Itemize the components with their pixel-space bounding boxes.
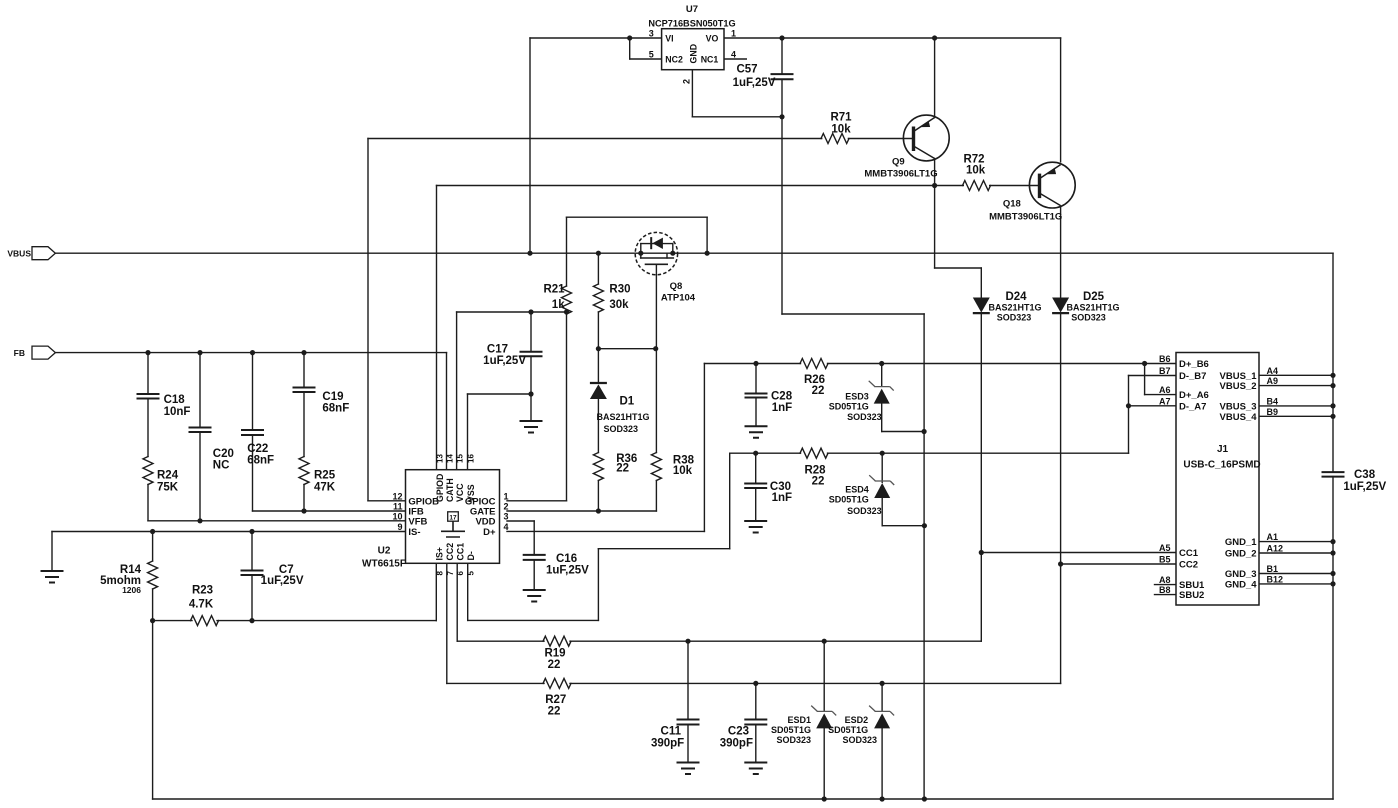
svg-text:C30: C30 [770,481,791,493]
svg-text:C57: C57 [736,64,757,76]
svg-text:390pF: 390pF [720,738,753,750]
svg-text:VBUS_4: VBUS_4 [1220,412,1258,423]
svg-text:CC2: CC2 [1179,560,1198,571]
svg-text:D-_A7: D-_A7 [1179,401,1206,412]
svg-text:1uF,25V: 1uF,25V [261,575,304,587]
svg-text:9: 9 [397,522,402,532]
svg-text:VBUS_2: VBUS_2 [1220,381,1257,392]
svg-text:VCC: VCC [455,483,465,502]
svg-text:D-: D- [466,551,476,560]
svg-text:VBUS: VBUS [7,249,31,259]
svg-text:16: 16 [467,454,476,463]
svg-text:22: 22 [548,706,561,718]
svg-text:11: 11 [393,502,403,512]
svg-text:1uF,25V: 1uF,25V [733,77,776,89]
svg-text:A4: A4 [1267,366,1279,376]
svg-text:C23: C23 [728,726,749,738]
svg-text:22: 22 [812,385,825,397]
svg-text:1uF,25V: 1uF,25V [1343,481,1386,493]
svg-text:R27: R27 [545,694,566,706]
svg-text:30k: 30k [609,299,629,311]
svg-text:C11: C11 [661,726,682,738]
svg-text:R21: R21 [543,284,565,296]
svg-text:CC2: CC2 [445,543,455,561]
svg-text:22: 22 [548,659,561,671]
svg-text:CC1: CC1 [456,543,466,561]
svg-text:SOD323: SOD323 [842,735,877,745]
svg-text:D1: D1 [620,396,635,408]
svg-text:12: 12 [392,491,402,501]
svg-text:D-_B7: D-_B7 [1179,371,1206,382]
svg-text:R30: R30 [609,284,630,296]
svg-text:MMBT3906LT1G: MMBT3906LT1G [864,169,937,180]
svg-text:2: 2 [682,79,692,84]
svg-text:1k: 1k [552,299,565,311]
svg-text:SOD323: SOD323 [776,735,811,745]
svg-text:VI: VI [665,34,673,44]
svg-text:USB-C_16PSMD: USB-C_16PSMD [1183,460,1260,471]
svg-text:U7: U7 [686,4,698,15]
svg-text:SD05T1G: SD05T1G [829,402,869,412]
svg-text:WT6615F: WT6615F [362,559,406,570]
svg-text:U2: U2 [378,546,391,557]
svg-text:B1: B1 [1267,564,1279,574]
svg-text:J1: J1 [1217,444,1229,455]
svg-text:68nF: 68nF [322,403,349,415]
svg-text:B5: B5 [1159,555,1171,565]
svg-text:D25: D25 [1083,291,1105,303]
svg-text:C20: C20 [213,448,234,460]
svg-text:B12: B12 [1267,574,1284,584]
svg-text:C17: C17 [487,344,508,356]
svg-text:SOD323: SOD323 [604,424,639,434]
svg-text:ESD1: ESD1 [787,715,811,725]
svg-text:BAS21HT1G: BAS21HT1G [1066,303,1119,313]
svg-text:22: 22 [812,475,825,487]
svg-text:GND_1: GND_1 [1225,537,1257,548]
svg-text:5: 5 [649,50,654,60]
svg-text:B6: B6 [1159,354,1171,364]
svg-text:GND: GND [689,44,699,64]
svg-text:75K: 75K [157,481,179,493]
svg-text:IS+: IS+ [435,547,445,560]
svg-text:C28: C28 [771,391,793,403]
svg-text:A9: A9 [1267,376,1279,386]
svg-text:B7: B7 [1159,366,1171,376]
svg-text:ATP104: ATP104 [661,293,696,304]
svg-text:10k: 10k [831,124,851,136]
svg-text:VO: VO [706,34,719,44]
svg-text:B9: B9 [1267,407,1279,417]
svg-text:CATH: CATH [445,478,455,502]
svg-text:SBU2: SBU2 [1179,590,1204,601]
svg-text:BAS21HT1G: BAS21HT1G [988,303,1041,313]
svg-text:10nF: 10nF [164,406,191,418]
svg-text:ESD2: ESD2 [845,715,869,725]
svg-text:10k: 10k [673,465,693,477]
svg-text:4.7K: 4.7K [189,598,214,610]
svg-text:B8: B8 [1159,585,1171,595]
svg-text:B4: B4 [1267,396,1279,406]
svg-text:A7: A7 [1159,396,1171,406]
svg-text:NC: NC [213,460,230,472]
svg-text:1nF: 1nF [772,492,792,504]
svg-text:R25: R25 [314,470,336,482]
svg-text:1uF,25V: 1uF,25V [546,565,589,577]
svg-text:3: 3 [649,29,654,39]
svg-text:17: 17 [449,515,457,522]
svg-text:CC1: CC1 [1179,548,1199,559]
svg-text:SOD323: SOD323 [997,313,1032,323]
svg-text:10: 10 [392,512,402,522]
svg-text:10k: 10k [966,165,986,177]
svg-text:13: 13 [436,454,445,463]
svg-text:D+_B6: D+_B6 [1179,359,1209,370]
svg-text:VFB: VFB [408,517,427,528]
svg-text:VBUS_3: VBUS_3 [1220,401,1257,412]
svg-text:1: 1 [504,491,509,501]
svg-text:Q8: Q8 [670,281,683,292]
svg-text:2: 2 [504,502,509,512]
svg-text:D+: D+ [483,527,496,538]
svg-text:GND_4: GND_4 [1225,579,1257,590]
svg-text:VDD: VDD [475,517,495,528]
svg-text:A6: A6 [1159,385,1171,395]
svg-text:SD05T1G: SD05T1G [771,725,811,735]
svg-text:14: 14 [446,454,455,463]
svg-text:R71: R71 [830,112,852,124]
svg-text:R19: R19 [544,648,565,660]
svg-text:NCP716BSN050T1G: NCP716BSN050T1G [648,19,735,29]
svg-text:GND_3: GND_3 [1225,569,1257,580]
svg-text:7: 7 [446,571,455,576]
svg-text:C22: C22 [247,443,268,455]
svg-text:68nF: 68nF [247,455,274,467]
svg-text:1uF,25V: 1uF,25V [483,355,526,367]
svg-text:R23: R23 [192,585,213,597]
svg-text:MMBT3906LT1G: MMBT3906LT1G [989,211,1062,222]
svg-text:VSS: VSS [466,484,476,502]
svg-text:A12: A12 [1267,544,1284,554]
svg-text:22: 22 [616,463,629,475]
svg-text:3: 3 [504,512,509,522]
svg-text:SOD323: SOD323 [847,412,882,422]
svg-text:390pF: 390pF [651,738,684,750]
svg-text:15: 15 [456,454,465,463]
svg-text:4: 4 [504,522,509,532]
svg-text:1nF: 1nF [772,402,792,414]
svg-text:ESD4: ESD4 [845,485,869,495]
svg-text:C16: C16 [556,553,577,565]
svg-text:NC2: NC2 [665,55,683,65]
svg-text:SD05T1G: SD05T1G [829,495,869,505]
svg-text:A8: A8 [1159,575,1171,585]
svg-text:1: 1 [731,29,736,39]
svg-text:GND_2: GND_2 [1225,549,1257,560]
svg-text:5: 5 [467,571,476,576]
svg-text:C18: C18 [164,394,186,406]
svg-text:C19: C19 [322,391,343,403]
svg-text:Q18: Q18 [1003,199,1021,210]
svg-text:SOD323: SOD323 [847,506,882,516]
svg-text:47K: 47K [314,481,336,493]
svg-text:1206: 1206 [122,585,141,595]
svg-text:D+_A6: D+_A6 [1179,390,1209,401]
svg-text:A1: A1 [1267,532,1279,542]
svg-text:SOD323: SOD323 [1071,313,1106,323]
svg-text:R24: R24 [157,470,179,482]
svg-text:FB: FB [14,348,25,358]
svg-text:GPIOD: GPIOD [435,474,445,502]
svg-text:8: 8 [435,571,444,576]
svg-text:C38: C38 [1354,469,1376,481]
svg-text:SD05T1G: SD05T1G [828,725,868,735]
svg-text:BAS21HT1G: BAS21HT1G [596,412,649,422]
svg-text:NC1: NC1 [701,55,719,65]
svg-text:IS-: IS- [408,527,420,538]
svg-text:D24: D24 [1005,291,1027,303]
svg-text:4: 4 [731,50,736,60]
svg-text:6: 6 [456,571,465,576]
svg-text:A5: A5 [1159,543,1171,553]
svg-text:ESD3: ESD3 [845,392,869,402]
svg-text:Q9: Q9 [892,157,905,168]
